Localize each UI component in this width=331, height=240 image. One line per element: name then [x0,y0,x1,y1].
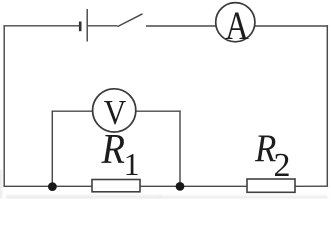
svg-text:R: R [101,126,125,173]
svg-text:A: A [225,3,249,48]
svg-text:2: 2 [274,147,291,184]
svg-text:1: 1 [124,146,140,182]
